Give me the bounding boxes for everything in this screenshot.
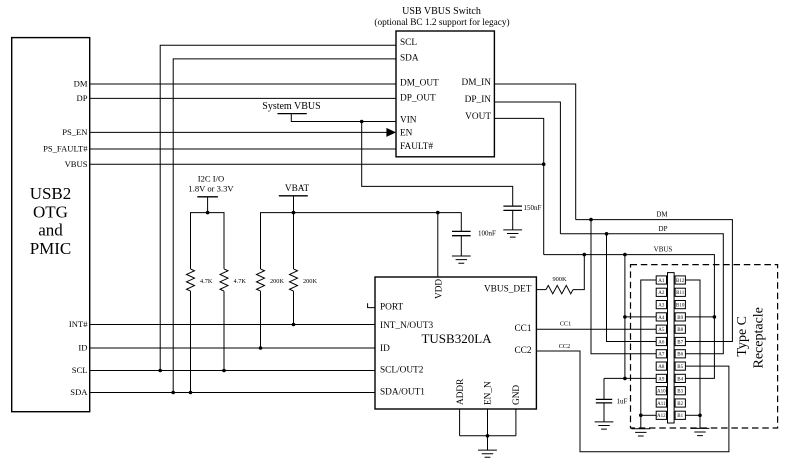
wire GND pin down (515, 409, 517, 436)
junction VBUS with 900K resistor (583, 253, 587, 257)
receptacle pin B10 (675, 301, 685, 309)
junction at A4 wire (623, 315, 627, 319)
junction VBAT rail (292, 211, 296, 215)
wire 1uF cap riser (603, 378, 605, 399)
wire I2C pullup rail (191, 213, 225, 269)
svg-text:USB2: USB2 (30, 184, 72, 203)
svg-text:VBUS: VBUS (65, 159, 88, 169)
receptacle pin A3 (656, 301, 666, 309)
svg-text:GND: GND (512, 385, 522, 405)
EN pin arrow (386, 128, 396, 137)
receptacle pin B2 (675, 399, 685, 407)
svg-text:B11: B11 (676, 291, 685, 296)
wire VBUS run to B4 (544, 255, 715, 379)
junction SCL riser (158, 369, 162, 373)
junction bottom bus (486, 434, 490, 438)
svg-text:A3: A3 (658, 304, 665, 309)
svg-text:INT#: INT# (69, 319, 88, 329)
switch pin labels right (462, 78, 492, 122)
svg-text:200K: 200K (270, 278, 284, 285)
svg-text:VOUT: VOUT (465, 112, 491, 122)
PORT pin stub (368, 303, 375, 307)
svg-text:SCL/OUT2: SCL/OUT2 (380, 366, 424, 376)
junction System VBUS branch (360, 120, 364, 124)
svg-text:200K: 200K (303, 278, 317, 285)
System VBUS supply symbol (262, 101, 320, 113)
wire R2 to SCL net (223, 291, 225, 370)
wire DP branch to A6 (607, 234, 657, 342)
wire System VBUS branch to 150nF cap (362, 122, 513, 207)
wire DP net (DP to DP_OUT) (90, 97, 396, 99)
wire DP_IN to DP run (494, 102, 560, 234)
capacitor C2 100nF (452, 231, 471, 235)
svg-text:B1: B1 (677, 414, 683, 419)
receptacle pin A9 (656, 374, 666, 382)
ground under TUSB (478, 450, 497, 457)
resistor R5 900K (546, 285, 573, 293)
svg-text:4.7K: 4.7K (200, 278, 213, 285)
junction at B9 wire (713, 315, 717, 319)
svg-text:4.7K: 4.7K (234, 278, 247, 285)
svg-text:PS_EN: PS_EN (62, 127, 88, 137)
junction DP branch to A6 (605, 232, 609, 236)
svg-text:OTG: OTG (33, 202, 68, 221)
svg-text:(optional BC 1.2 support for l: (optional BC 1.2 support for legacy) (374, 17, 509, 28)
svg-text:VIN: VIN (400, 116, 417, 126)
wire B12 GND down (685, 280, 700, 428)
svg-text:CC1: CC1 (560, 320, 572, 327)
svg-text:PS_FAULT#: PS_FAULT# (43, 144, 88, 154)
receptacle pin A10 (656, 387, 666, 395)
svg-text:ID: ID (380, 344, 390, 354)
wire 100nF cap to ground (460, 236, 462, 256)
USB2 OTG and PMIC block (12, 38, 90, 412)
receptacle pin B7 (675, 337, 685, 345)
wire 150nF cap to ground (512, 210, 514, 230)
receptacle pin A1 (656, 276, 666, 284)
receptacle center bar (668, 273, 675, 423)
svg-text:CC2: CC2 (514, 346, 531, 356)
svg-text:A4: A4 (658, 316, 665, 321)
wire bus to ground (487, 436, 489, 450)
receptacle pin B5 (675, 362, 685, 370)
svg-text:A12: A12 (657, 414, 666, 419)
svg-text:and: and (38, 221, 63, 240)
svg-text:A2: A2 (658, 291, 665, 296)
wire A12 to GND (641, 414, 656, 416)
svg-text:TUSB320LA: TUSB320LA (421, 331, 492, 346)
wire VDD to TUSB320LA (437, 213, 439, 277)
wire I2C supply stem (207, 197, 209, 213)
svg-text:SDA: SDA (70, 387, 88, 397)
receptacle pin A2 (656, 288, 666, 296)
VBAT supply symbol (279, 184, 310, 196)
wire VBUS_DET to 900K (536, 289, 546, 291)
svg-text:Type C: Type C (735, 316, 750, 357)
receptacle pin B4 (675, 374, 685, 382)
wire 1uF cap to ground (603, 403, 605, 422)
Type C Receptacle J1 dashed outline (631, 265, 778, 428)
svg-text:B8: B8 (677, 328, 683, 333)
svg-text:VBUS_DET: VBUS_DET (484, 285, 532, 295)
receptacle pin A11 (656, 399, 666, 407)
wire INT# net (90, 324, 375, 326)
TUSB320LA U1 (375, 277, 536, 409)
resistor R4 200K (290, 269, 298, 291)
wire CC1 net to A5 (536, 328, 656, 330)
junction A9/1uF (623, 377, 627, 381)
wire SDA net riser and top run to switch SDA (173, 59, 396, 393)
receptacle pin B6 (675, 350, 685, 358)
svg-text:I2C I/O: I2C I/O (198, 174, 225, 184)
svg-text:VDD: VDD (435, 279, 445, 299)
receptacle pin B3 (675, 387, 685, 395)
svg-text:A7: A7 (658, 353, 665, 358)
receptacle pin A4 (656, 313, 666, 321)
wire R4 to INT# net (293, 291, 295, 324)
wire PS_EN net (90, 131, 387, 133)
wire VBUS to A4 (625, 316, 656, 318)
svg-text:1.8V or 3.3V: 1.8V or 3.3V (188, 184, 234, 194)
wire VBUS branch vertical to A4 A9 (624, 255, 626, 379)
svg-text:FAULT#: FAULT# (400, 142, 433, 152)
svg-text:System VBUS: System VBUS (262, 101, 320, 112)
svg-text:A1: A1 (658, 279, 665, 284)
wire B1 to GND (685, 414, 700, 416)
svg-text:A8: A8 (658, 365, 665, 370)
junction VDD branch (436, 211, 440, 215)
svg-text:A11: A11 (657, 402, 666, 407)
junction VBUS branch to A4/A9 (623, 253, 627, 257)
TUSB left pin labels (380, 303, 434, 398)
svg-text:900K: 900K (553, 276, 567, 283)
svg-text:DM_OUT: DM_OUT (400, 78, 439, 88)
svg-text:CC1: CC1 (514, 324, 531, 334)
receptacle pin B11 (675, 288, 685, 296)
junction R3 on ID (259, 346, 263, 350)
svg-text:A9: A9 (658, 377, 665, 382)
ground under 100nF cap (452, 256, 471, 263)
svg-text:DP_OUT: DP_OUT (400, 94, 436, 104)
receptacle pin A7 (656, 350, 666, 358)
junction I2C rail (206, 211, 210, 215)
svg-text:SDA: SDA (400, 54, 419, 64)
svg-text:B6: B6 (677, 353, 683, 358)
receptacle pin A6 (656, 337, 666, 345)
wire CC2 net to B5 (536, 351, 729, 452)
svg-text:A5: A5 (658, 328, 665, 333)
wire PS_FAULT# net to FAULT# (90, 148, 396, 150)
receptacle pin B12 (675, 276, 685, 284)
svg-text:DM: DM (656, 211, 668, 219)
svg-text:EN: EN (400, 129, 413, 139)
ground under 1uF cap (595, 422, 614, 429)
left block pin labels (43, 79, 88, 398)
resistor R1 4.7K (187, 269, 195, 291)
svg-text:ADDR: ADDR (456, 378, 466, 405)
wire R3 to ID net (260, 291, 262, 348)
wire SCL net (90, 370, 375, 372)
wire VBUS to A9 with 1uF tap (604, 377, 656, 379)
svg-text:A10: A10 (657, 390, 666, 395)
TUSB right pin labels (484, 285, 532, 357)
wire A1 GND down (641, 280, 656, 429)
wire bottom pin bus (460, 435, 516, 437)
svg-text:B5: B5 (677, 365, 683, 370)
junction A12 on GND wire (639, 414, 643, 418)
svg-text:DM: DM (74, 79, 88, 89)
svg-text:150nF: 150nF (524, 204, 542, 212)
receptacle pin A5 (656, 325, 666, 333)
wire SDA net (90, 392, 375, 394)
svg-text:CC2: CC2 (559, 343, 571, 350)
svg-text:ID: ID (78, 343, 87, 353)
svg-text:SCL: SCL (400, 38, 417, 48)
svg-text:100nF: 100nF (478, 230, 496, 238)
svg-text:DP: DP (659, 225, 668, 233)
junction R4 on INT# (292, 323, 296, 327)
svg-text:A6: A6 (658, 340, 665, 345)
svg-text:Receptacle: Receptacle (751, 307, 766, 368)
ground under 150nF cap (503, 230, 522, 237)
wire DM run to B7 (576, 220, 733, 342)
wire 900K up to VBUS (573, 255, 584, 290)
wire VOUT down to VBUS run (494, 118, 543, 254)
svg-text:B2: B2 (677, 402, 683, 407)
svg-text:VBUS: VBUS (654, 246, 673, 254)
svg-text:INT_N/OUT3: INT_N/OUT3 (380, 321, 434, 331)
wire VBUS to B9 (685, 316, 714, 318)
junction DM branch to A7 (589, 218, 593, 222)
wire VBAT stem down to R4 (293, 196, 295, 269)
ground receptacle right (691, 428, 710, 435)
capacitor C1 150nF (503, 206, 522, 210)
svg-text:B4: B4 (677, 377, 683, 382)
wire R1 to SDA net (190, 291, 192, 392)
svg-text:DM_IN: DM_IN (462, 78, 492, 88)
wire VBAT/VDD rail to 100nF cap (261, 213, 462, 269)
wire DP run to B6 (560, 234, 723, 354)
I2C I/O supply symbol (188, 174, 234, 197)
junction R1 on SDA (189, 391, 193, 395)
svg-text:USB VBUS Switch: USB VBUS Switch (402, 6, 481, 17)
svg-text:PORT: PORT (380, 303, 404, 313)
svg-text:B12: B12 (676, 279, 685, 284)
resistor R3 200K (257, 269, 265, 291)
wire VBUS net horizontal (90, 163, 544, 165)
svg-text:DP: DP (77, 93, 88, 103)
junction B1 on GND wire (698, 414, 702, 418)
USB VBUS Switch block U2 (374, 6, 509, 157)
svg-text:VBAT: VBAT (285, 184, 310, 194)
receptacle pin A8 (656, 362, 666, 370)
svg-text:B7: B7 (677, 340, 683, 345)
switch pin labels left (400, 38, 439, 152)
capacitor C3 1uF (596, 399, 612, 403)
wire ID net (90, 347, 375, 349)
wire SCL net riser and top run to switch SCL (160, 45, 396, 370)
svg-text:B9: B9 (677, 316, 683, 321)
svg-text:B3: B3 (677, 390, 683, 395)
wire DM net (DM to DM_OUT) (90, 83, 396, 85)
svg-text:DP_IN: DP_IN (465, 95, 492, 105)
receptacle pin B8 (675, 325, 685, 333)
junction VOUT with VBUS net (542, 162, 546, 166)
junction R2 on SCL (222, 369, 226, 373)
resistor R2 4.7K (220, 269, 228, 291)
wire ADDR pin down (459, 409, 461, 436)
svg-text:SDA/OUT1: SDA/OUT1 (380, 388, 425, 398)
junction SDA riser (171, 391, 175, 395)
svg-text:B10: B10 (676, 304, 685, 309)
wire EN_N pin down (487, 409, 489, 436)
receptacle pin A12 (656, 411, 666, 419)
wire DM_IN to DM run (494, 84, 575, 220)
svg-text:EN_N: EN_N (484, 381, 494, 405)
receptacle pin B9 (675, 313, 685, 321)
receptacle pin B1 (675, 411, 685, 419)
wire DM branch to A7 (591, 220, 656, 354)
svg-text:PMIC: PMIC (30, 239, 72, 258)
wire System VBUS to VIN (291, 114, 396, 122)
svg-text:SCL: SCL (72, 365, 88, 375)
ground receptacle left (631, 429, 650, 436)
svg-text:1uF: 1uF (617, 398, 628, 406)
